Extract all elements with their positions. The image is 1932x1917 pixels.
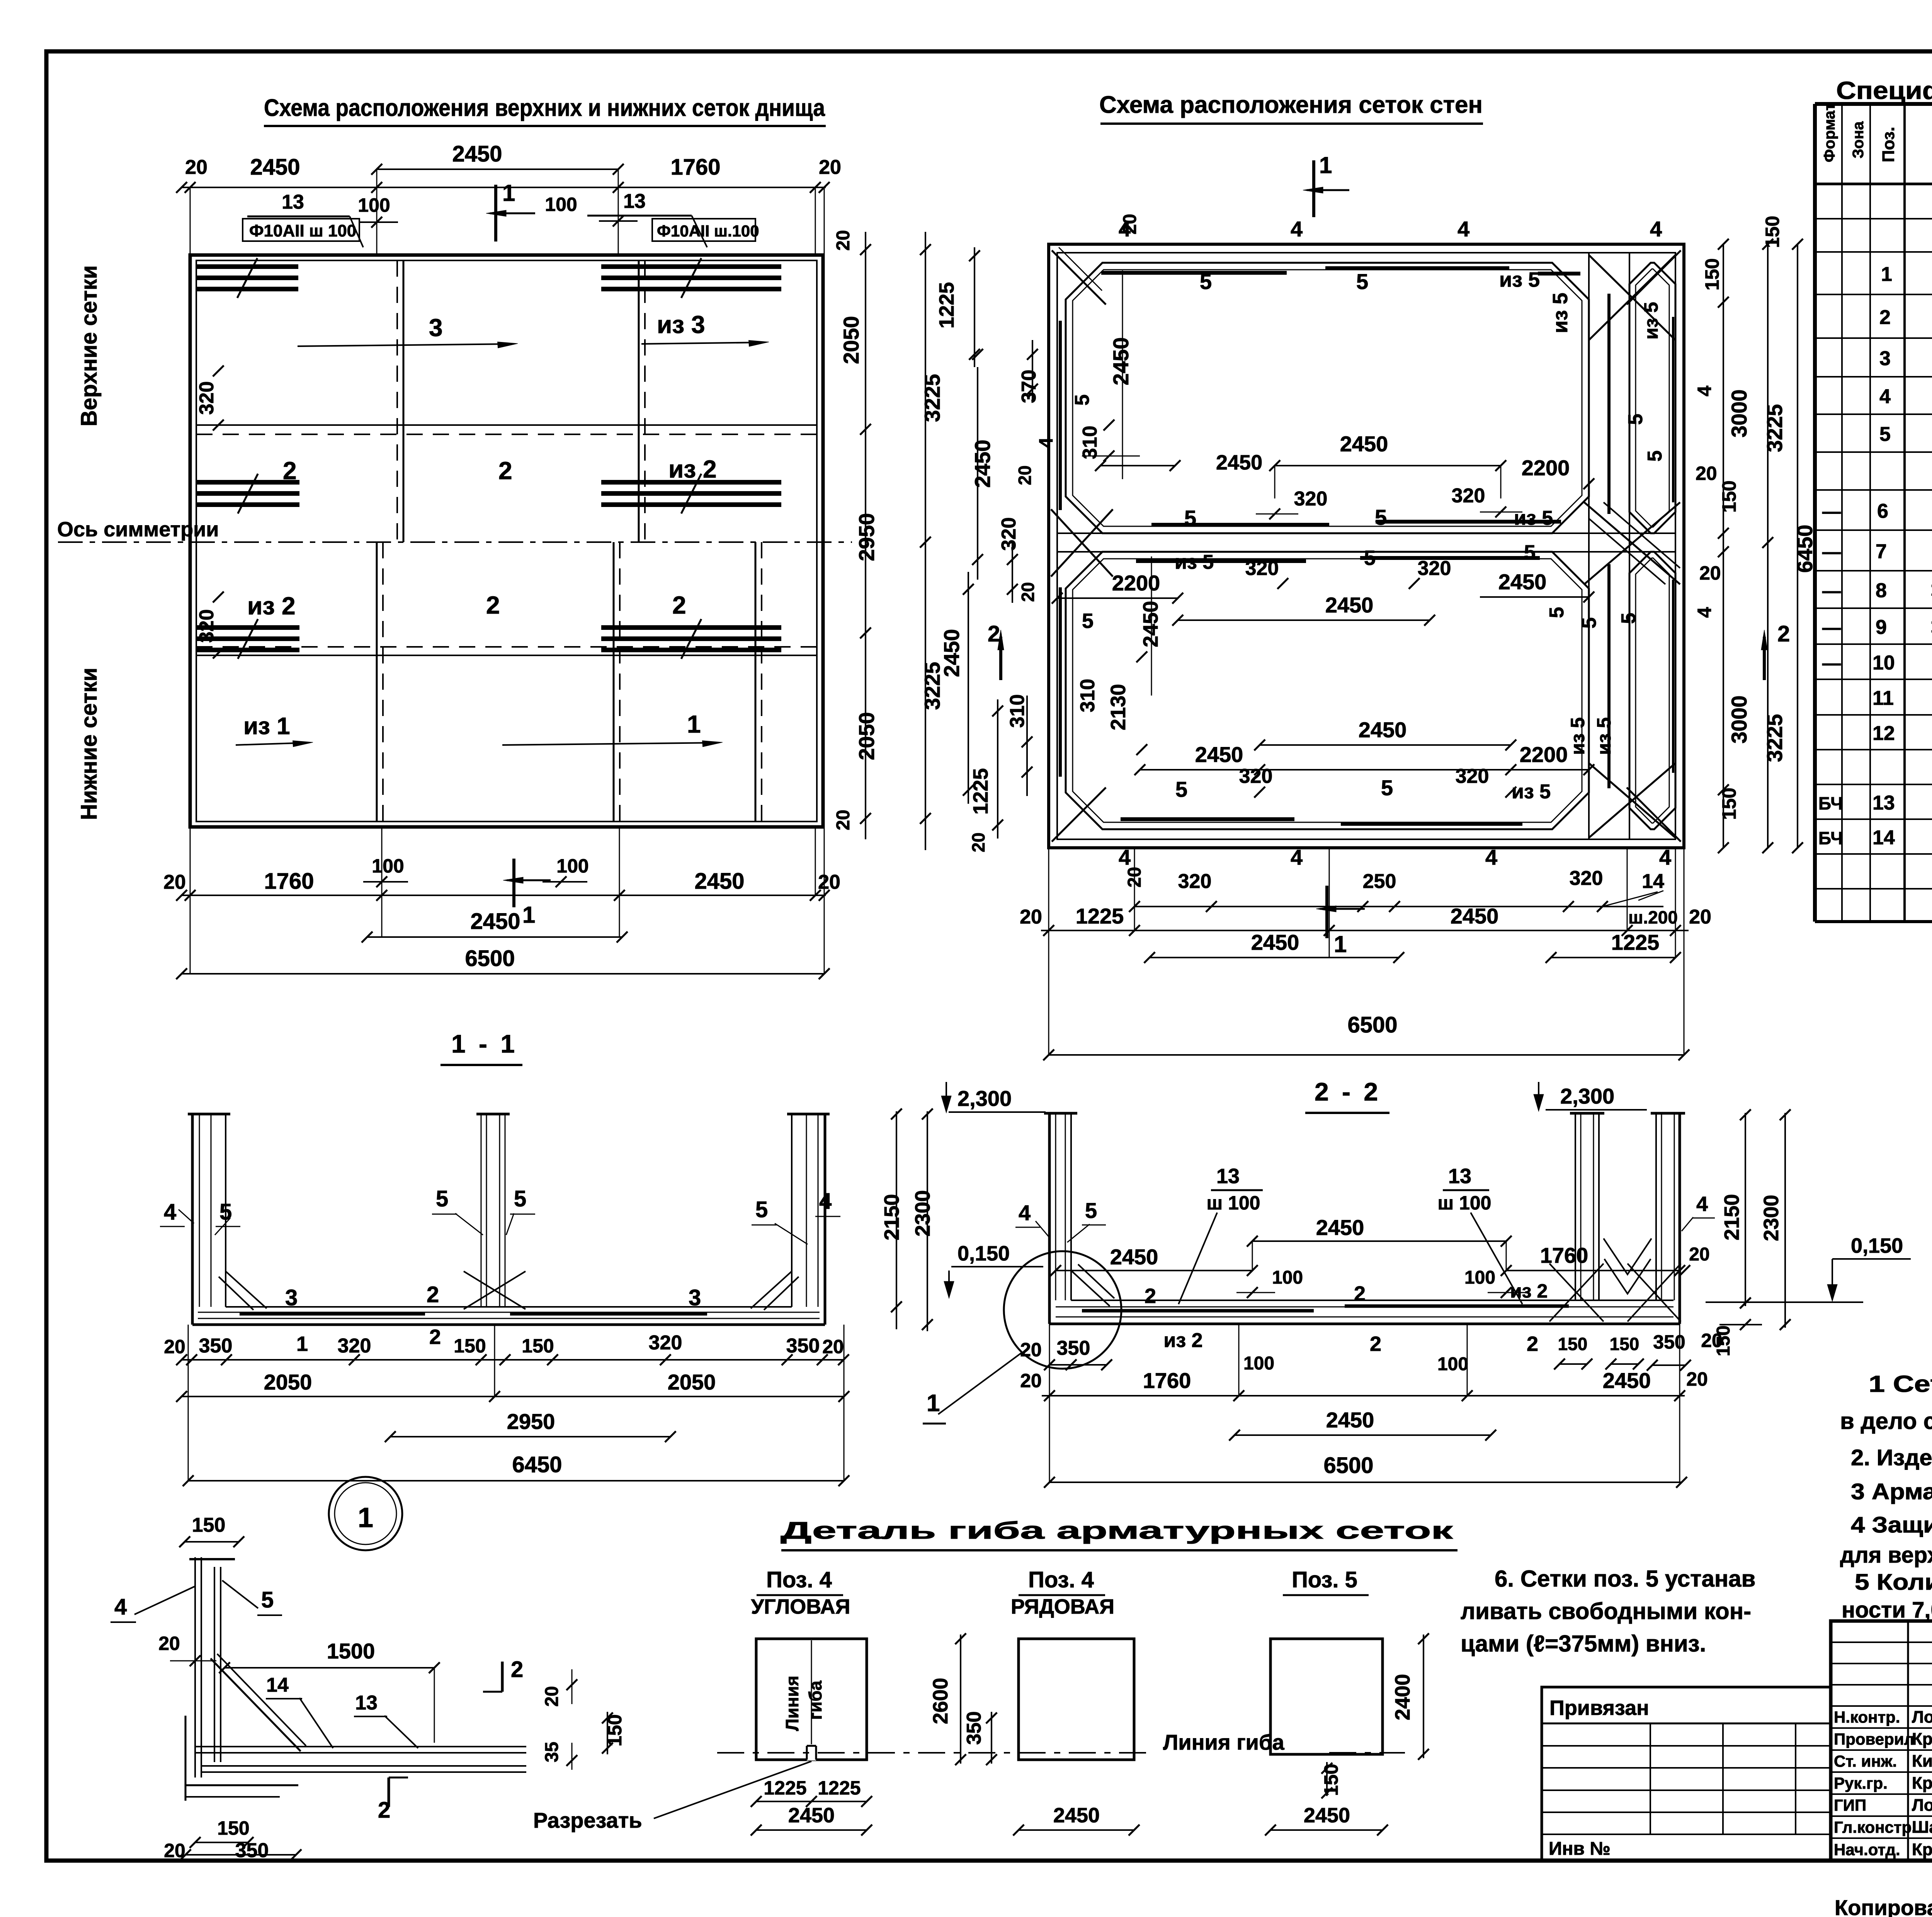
svg-text:3225: 3225: [1762, 714, 1787, 762]
svg-text:1 Сетки поз 4 и 5 согнуть: 1 Сетки поз 4 и 5 согнуть по месту до ус…: [1869, 1371, 1932, 1397]
svg-text:Привязан: Привязан: [1549, 1696, 1649, 1720]
svg-text:2450: 2450: [452, 141, 502, 167]
svg-text:Зона: Зона: [1850, 121, 1867, 158]
svg-text:БЧ: БЧ: [1818, 793, 1843, 813]
section 2-2 floor top: [1071, 1300, 1673, 1301]
svg-text:100: 100: [1437, 1354, 1468, 1374]
svg-text:гиба: гиба: [805, 1681, 825, 1720]
svg-text:1760: 1760: [264, 869, 314, 894]
svg-text:320: 320: [1418, 557, 1451, 580]
section 2-2 right outer wall line: [1679, 1113, 1681, 1324]
svg-text:из 3: из 3: [657, 311, 705, 338]
svg-text:из 5: из 5: [1514, 507, 1553, 529]
svg-text:320: 320: [1239, 765, 1273, 788]
X cross left end of middle wall: [1051, 509, 1113, 577]
svg-text:2300: 2300: [1760, 1195, 1783, 1241]
leader from 13 to mesh left: [350, 216, 363, 247]
svg-text:2200: 2200: [1520, 742, 1568, 767]
svg-text:310: 310: [1079, 426, 1101, 459]
right dim chain 2 of wall plan: [1767, 244, 1769, 848]
section 1-1 right wall outer line: [824, 1114, 827, 1325]
section 2-2 bent mesh V in right gap: [1604, 1238, 1651, 1274]
ext verticals below section 1-1: [188, 1325, 189, 1481]
svg-text:из 5: из 5: [1512, 781, 1551, 803]
svg-text:Краснова: Краснова: [1912, 1730, 1932, 1749]
svg-text:4: 4: [164, 1199, 176, 1225]
label box Ф10АII ш 100 left: [243, 219, 359, 241]
svg-text:1500: 1500: [327, 1639, 375, 1663]
svg-text:Линия гиба: Линия гиба: [1163, 1730, 1285, 1754]
horizontal ext line at floor top right of section 2-2: [1706, 1301, 1863, 1303]
svg-text:100: 100: [358, 194, 390, 216]
svg-text:—: —: [1822, 502, 1841, 522]
section 1-1 floor mesh line a: [198, 1318, 820, 1319]
svg-text:3000: 3000: [1727, 696, 1751, 744]
mesh square поз 5: [1270, 1639, 1383, 1754]
svg-text:2: 2: [1777, 621, 1790, 646]
svg-text:2450: 2450: [1316, 1215, 1364, 1240]
mesh overlap bar left wall lower: [1059, 587, 1062, 777]
section 2-2 left wall mesh a: [1055, 1113, 1056, 1300]
svg-text:5: 5: [1546, 607, 1568, 618]
svg-text:РЯДОВАЯ: РЯДОВАЯ: [1011, 1595, 1114, 1618]
svg-text:из 5: из 5: [1640, 302, 1662, 339]
top-left chamber mesh outline: [1066, 263, 1589, 533]
svg-text:2450: 2450: [1603, 1368, 1651, 1393]
section 1-1 left wall inner line: [225, 1114, 226, 1307]
svg-text:150: 150: [454, 1335, 486, 1357]
svg-text:Схема расположения сеток стен: Схема расположения сеток стен: [1099, 92, 1483, 118]
svg-text:150: 150: [1610, 1334, 1639, 1354]
svg-text:9: 9: [1876, 616, 1887, 639]
svg-text:из 2: из 2: [1163, 1329, 1202, 1352]
svg-text:100: 100: [1464, 1267, 1495, 1288]
corner detail diagonal bar: [211, 1658, 301, 1751]
svg-text:Верхние сетки: Верхние сетки: [77, 265, 102, 427]
mesh square row type: [1019, 1639, 1134, 1760]
svg-text:13: 13: [355, 1692, 378, 1714]
wall plan inner rectangle: [1057, 253, 1675, 839]
corner diagonal top-left of wall plan: [1052, 250, 1106, 304]
svg-text:5: 5: [1624, 414, 1647, 425]
right dim chain 3 of wall plan: [1797, 244, 1798, 848]
svg-text:Поз. 5: Поз. 5: [1292, 1567, 1357, 1592]
middle wall line bottom: [1057, 551, 1675, 553]
svg-text:1760: 1760: [670, 155, 720, 180]
svg-text:5: 5: [1175, 777, 1187, 801]
svg-text:4: 4: [1694, 607, 1715, 618]
leaders to label 14: [1638, 891, 1663, 900]
spec table outer left border: [1813, 104, 1817, 922]
svg-text:2: 2: [1879, 306, 1891, 329]
right dim chain inner of left plan: [865, 232, 866, 839]
dim row 20-1760-2450-20 below plan: [182, 895, 826, 896]
svg-text:100: 100: [1272, 1267, 1303, 1288]
right wall line inner: [1629, 253, 1630, 839]
section 1-1 floor top line: [226, 1306, 792, 1308]
svg-text:150: 150: [522, 1335, 554, 1357]
mesh overlap bar bottom 1: [1121, 817, 1294, 821]
svg-text:из 1: из 1: [243, 713, 290, 740]
svg-text:Схема расположения верхних и н: Схема расположения верхних и нижних сето…: [264, 95, 825, 121]
svg-text:100: 100: [556, 855, 588, 877]
svg-text:2450: 2450: [1326, 1408, 1374, 1432]
section 2-2 floor rebar bar left: [1082, 1309, 1314, 1313]
stamp left column lines: [1907, 1621, 1909, 1861]
svg-text:5: 5: [514, 1186, 526, 1211]
svg-text:1.400-15, в.1 , 210-15: 1.400-15, в.1 , 210-15: [1930, 580, 1932, 600]
bottom-left chamber mesh outline: [1066, 552, 1589, 829]
svg-text:1: 1: [296, 1332, 308, 1356]
svg-text:4: 4: [1291, 845, 1303, 869]
svg-text:5: 5: [1356, 269, 1368, 294]
svg-text:2450: 2450: [250, 155, 300, 180]
svg-text:2400: 2400: [1391, 1674, 1414, 1720]
mesh overlap hatch top-left: [196, 264, 298, 269]
svg-text:5: 5: [1071, 395, 1094, 406]
svg-text:3: 3: [1879, 347, 1891, 370]
svg-text:из 5: из 5: [1499, 268, 1540, 291]
svg-text:1: 1: [1881, 263, 1892, 286]
section 1-1 wall top cap left: [188, 1113, 230, 1116]
svg-text:1: 1: [1319, 152, 1332, 178]
right wall line outer: [1588, 253, 1590, 839]
underline of 2-2 title: [1305, 1112, 1389, 1114]
mesh overlap hatch mid-right: [601, 480, 781, 485]
section 2-2 X crosses bottom right: [1549, 1264, 1604, 1322]
svg-text:6. Сетки поз. 5 устанав: 6. Сетки поз. 5 устанав: [1495, 1566, 1755, 1592]
svg-text:150: 150: [217, 1817, 249, 1839]
svg-text:2450: 2450: [1304, 1804, 1350, 1827]
svg-text:35: 35: [542, 1742, 562, 1762]
mesh overlap bar left wall upper: [1059, 321, 1062, 510]
svg-text:4: 4: [1019, 1201, 1031, 1225]
svg-text:250: 250: [1363, 870, 1396, 893]
mesh overlap bar right inner upper: [1672, 317, 1674, 502]
dim row 20-2450-1760-20 above plan: [182, 187, 826, 188]
mesh overlap hatch top-right: [601, 264, 781, 269]
svg-text:2450: 2450: [1340, 432, 1388, 456]
svg-text:4 Защитный слой бетона для: 4 Защитный слой бетона для нижних сеток …: [1851, 1512, 1932, 1538]
svg-text:350: 350: [1057, 1337, 1090, 1359]
right dim 2150 of section 2-2: [1745, 1113, 1746, 1306]
corner diagonal bottom-left of wall plan: [1052, 788, 1106, 842]
section 2-2 left wall inner line: [1070, 1113, 1072, 1300]
corner detail bottom ledge lines: [185, 1784, 298, 1786]
mesh overlap bar right wall lower: [1607, 564, 1611, 788]
svg-text:2150: 2150: [880, 1194, 903, 1240]
vertical fold axis in corner mesh: [811, 1640, 812, 1744]
small ticks below floor right: [1560, 1363, 1587, 1365]
svg-text:2: 2: [672, 591, 686, 619]
Привязан grid columns: [1650, 1723, 1651, 1834]
plan outer rectangle (bottom slab): [190, 255, 823, 827]
svg-text:Спецификация монолитного: Спецификация монолитного: [1836, 77, 1932, 104]
svg-text:4: 4: [1458, 217, 1469, 241]
svg-text:13: 13: [623, 190, 646, 213]
svg-text:Поз.: Поз.: [1879, 127, 1898, 162]
svg-text:Лоуцкер: Лоуцкер: [1912, 1796, 1932, 1815]
svg-text:5: 5: [1644, 451, 1666, 462]
mesh overlap bar top 3: [1538, 272, 1580, 276]
svg-text:3: 3: [429, 314, 443, 342]
svg-text:2450: 2450: [1109, 337, 1133, 386]
svg-text:13: 13: [282, 191, 304, 213]
svg-text:2200: 2200: [1112, 571, 1160, 595]
svg-text:6500: 6500: [465, 946, 515, 971]
svg-text:6500: 6500: [1323, 1453, 1373, 1478]
svg-text:ш.200: ш.200: [1628, 907, 1678, 927]
svg-text:20: 20: [818, 871, 840, 893]
section 2-2 wall top cap left: [1044, 1112, 1077, 1115]
svg-text:2450: 2450: [1251, 930, 1299, 954]
stamp left thin rows: [1831, 1641, 1932, 1643]
svg-text:2,300: 2,300: [1560, 1084, 1614, 1108]
svg-text:370: 370: [1018, 370, 1040, 403]
section 1-1 corner diagonal bottom-left: [226, 1271, 267, 1308]
mesh horizontal joint upper dashed: [196, 434, 817, 435]
svg-text:5: 5: [1879, 423, 1891, 446]
right dim 2300 of section 2-2: [1784, 1113, 1786, 1328]
section 1-1 right wall mesh line a: [818, 1114, 819, 1307]
section 2-2 corner diagonal bottom-left: [1071, 1271, 1110, 1306]
svg-text:УГЛОВАЯ: УГЛОВАЯ: [751, 1595, 850, 1618]
section 1-1 floor rebar bar left: [240, 1312, 425, 1316]
svg-text:320: 320: [196, 609, 218, 643]
svg-text:2130: 2130: [1107, 684, 1130, 730]
svg-text:12: 12: [1872, 722, 1895, 745]
bottom-right narrow chamber mesh outline inner: [1636, 558, 1669, 823]
dim row 1760-100-100-2450-20 below section 2-2: [1042, 1395, 1685, 1397]
svg-text:4: 4: [114, 1594, 127, 1619]
svg-text:1760: 1760: [1540, 1243, 1588, 1267]
svg-text:2: 2: [1354, 1282, 1366, 1305]
top-right narrow chamber mesh outline: [1629, 263, 1675, 533]
svg-text:1 - 1: 1 - 1: [451, 1029, 518, 1058]
svg-text:320: 320: [1456, 765, 1489, 788]
svg-text:20: 20: [1689, 1244, 1709, 1265]
leader from 13 to mesh right: [692, 216, 707, 247]
svg-text:0,150: 0,150: [957, 1242, 1010, 1265]
mesh horizontal joint upper solid: [196, 424, 817, 426]
svg-text:ливать свободными кон-: ливать свободными кон-: [1461, 1598, 1751, 1624]
svg-text:20: 20: [1018, 582, 1038, 602]
svg-text:1225: 1225: [1611, 930, 1660, 954]
svg-text:Деталь гиба арматурных с: Деталь гиба арматурных сеток: [781, 1517, 1454, 1544]
svg-text:4: 4: [819, 1189, 832, 1214]
svg-text:1.400-15, в1, 120-43: 1.400-15, в1, 120-43: [1930, 616, 1932, 637]
svg-text:13: 13: [1872, 792, 1895, 814]
underline of left title: [264, 125, 826, 127]
wall plan outer rectangle: [1049, 244, 1684, 848]
detail circle mark 1: [329, 1477, 402, 1550]
svg-text:в дело согласно детали.: в дело согласно детали.: [1840, 1408, 1932, 1434]
section 2-2 right wall A lines: [1575, 1113, 1576, 1300]
svg-text:20: 20: [1699, 562, 1721, 584]
svg-text:1: 1: [358, 1502, 373, 1533]
svg-text:0,150: 0,150: [1851, 1234, 1903, 1257]
right dim chain 1 of wall plan: [1723, 244, 1724, 848]
svg-text:2450: 2450: [1216, 451, 1262, 474]
svg-text:7: 7: [1876, 541, 1887, 563]
svg-text:5: 5: [1375, 505, 1387, 529]
svg-text:13: 13: [1216, 1165, 1240, 1188]
svg-text:2450: 2450: [1498, 570, 1547, 594]
svg-text:2450: 2450: [470, 909, 520, 934]
section 1-1 right wall inner line: [791, 1114, 793, 1307]
svg-text:цами (ℓ=375мм) вниз.: цами (ℓ=375мм) вниз.: [1461, 1631, 1706, 1657]
svg-text:2450: 2450: [939, 629, 964, 677]
svg-text:20: 20: [1020, 1339, 1042, 1361]
corner diagonal top-right of wall plan: [1627, 250, 1681, 304]
svg-text:10: 10: [1872, 652, 1895, 674]
section 1-1 left wall outer line: [191, 1114, 194, 1325]
small table Привязан: [1542, 1687, 1831, 1861]
svg-text:14: 14: [1642, 870, 1664, 893]
svg-text:150: 150: [1320, 1764, 1342, 1796]
svg-text:Разрезать: Разрезать: [533, 1808, 642, 1832]
svg-text:20: 20: [185, 156, 207, 179]
svg-text:20: 20: [1696, 463, 1717, 484]
svg-text:20: 20: [1020, 1370, 1042, 1391]
svg-text:5: 5: [219, 1199, 232, 1225]
right dim 2150 of section 1-1: [896, 1111, 897, 1329]
section 1-1 corner diagonal bottom-right: [751, 1271, 792, 1308]
svg-text:20: 20: [822, 1336, 844, 1357]
axis of symmetry dash-dot line: [58, 541, 852, 543]
section 2-2 right wall B lines: [1655, 1113, 1657, 1300]
svg-text:4: 4: [1659, 845, 1671, 869]
svg-text:320: 320: [1570, 867, 1603, 890]
svg-text:5: 5: [1617, 613, 1640, 624]
svg-text:Красавин: Красавин: [1912, 1840, 1932, 1859]
svg-text:100: 100: [545, 194, 577, 215]
svg-text:150: 150: [1718, 480, 1740, 512]
svg-text:2: 2: [283, 457, 297, 485]
top-left chamber mesh outline inner: [1073, 270, 1582, 526]
svg-text:ш 100: ш 100: [1207, 1192, 1260, 1214]
underline of bend detail title: [781, 1549, 1458, 1551]
corner detail wall bar top hook: [189, 1558, 235, 1560]
leader Разрезать: [654, 1761, 811, 1818]
svg-text:4: 4: [1035, 437, 1057, 448]
svg-text:13: 13: [1448, 1165, 1471, 1188]
svg-text:2450: 2450: [1139, 601, 1162, 647]
svg-text:Линия: Линия: [782, 1675, 802, 1731]
svg-text:20: 20: [1689, 906, 1711, 928]
spec table outer top border: [1815, 102, 1932, 106]
corner detail wall bars: [194, 1557, 196, 1778]
svg-text:310: 310: [1006, 694, 1029, 728]
svg-text:Поз. 4: Поз. 4: [766, 1567, 832, 1592]
svg-text:350: 350: [199, 1335, 233, 1357]
svg-text:5: 5: [1364, 546, 1376, 570]
svg-text:150: 150: [1713, 1325, 1734, 1356]
svg-text:ш 100: ш 100: [1438, 1192, 1492, 1214]
svg-text:2: 2: [486, 591, 500, 619]
svg-text:2450: 2450: [1451, 904, 1499, 928]
svg-text:320: 320: [338, 1335, 371, 1357]
svg-text:—: —: [1822, 618, 1841, 638]
svg-text:2: 2: [1145, 1284, 1156, 1308]
svg-text:4: 4: [1696, 1192, 1708, 1216]
svg-text:14: 14: [1872, 827, 1895, 849]
svg-text:из 5: из 5: [1593, 717, 1615, 755]
svg-text:из 2: из 2: [247, 592, 296, 620]
micro dim line below wall plan: [1134, 906, 1663, 907]
svg-text:из 5: из 5: [1175, 551, 1214, 573]
mesh overlap bar above middle wall 1: [1151, 523, 1329, 527]
svg-text:1225: 1225: [818, 1777, 861, 1799]
svg-text:320: 320: [1245, 557, 1279, 580]
mesh overlap hatch lower-left: [196, 625, 299, 630]
svg-text:3 Арматурные сетки поз. 1-5: 3 Арматурные сетки поз. 1-5 выполнены по…: [1851, 1479, 1932, 1504]
mesh sheet vertical joint 2 upper (solid+dashed): [638, 260, 640, 542]
svg-text:2450: 2450: [970, 440, 995, 488]
svg-text:320: 320: [1294, 488, 1328, 510]
svg-text:150: 150: [1718, 788, 1740, 820]
svg-text:1225: 1225: [764, 1777, 806, 1799]
section 1-1 left wall mesh line b: [211, 1114, 212, 1307]
svg-text:из 5: из 5: [1567, 717, 1588, 755]
svg-text:Копировал: Копировал: [1835, 1895, 1932, 1917]
svg-text:20: 20: [819, 156, 841, 179]
spec table outer bottom border: [1815, 920, 1932, 923]
underline of 1-1 title: [440, 1064, 522, 1066]
bottom-right narrow chamber mesh outline: [1629, 552, 1675, 829]
svg-text:350: 350: [1653, 1331, 1685, 1353]
mesh overlap bar top 1: [1101, 271, 1287, 275]
mesh overlap bar below middle wall 1: [1136, 559, 1306, 563]
ext verticals below section 2-2: [1049, 1324, 1050, 1482]
svg-text:5: 5: [261, 1587, 274, 1613]
svg-text:1: 1: [687, 710, 701, 738]
section 1-1 middle X cross: [464, 1271, 526, 1309]
svg-text:2450: 2450: [1359, 718, 1407, 742]
svg-text:БЧ: БЧ: [1818, 828, 1843, 848]
mesh sheet vertical joint 1 upper (dashed+solid): [396, 260, 398, 542]
svg-text:150: 150: [1701, 258, 1723, 290]
svg-text:Ф10АII ш.100: Ф10АII ш.100: [657, 222, 759, 240]
section 2-2 floor mesh b: [1056, 1306, 1673, 1308]
svg-text:3: 3: [285, 1285, 298, 1310]
section 2-2 left wall outer line: [1048, 1113, 1051, 1324]
svg-text:1: 1: [522, 902, 535, 928]
section 1-1 wall top cap middle: [476, 1113, 510, 1116]
svg-text:Гл.констр.: Гл.констр.: [1834, 1818, 1916, 1836]
svg-text:2450: 2450: [788, 1804, 835, 1827]
svg-text:2950: 2950: [854, 513, 879, 561]
section 1-1 wall top cap right: [787, 1113, 830, 1116]
svg-text:Формат: Формат: [1821, 103, 1838, 162]
mesh sheet vertical joint 1 lower (solid+dashed): [376, 542, 378, 822]
svg-text:2150: 2150: [1720, 1194, 1743, 1240]
svg-text:Поз. 4: Поз. 4: [1028, 1567, 1094, 1592]
section 1-1 floor rebar bar right: [510, 1312, 707, 1316]
svg-text:3: 3: [689, 1285, 701, 1310]
corner diagonal bottom-right of wall plan: [1627, 788, 1681, 842]
dim 2050 row below section 1-1: [182, 1396, 844, 1397]
svg-text:1: 1: [1334, 931, 1347, 957]
svg-text:—: —: [1822, 653, 1841, 674]
svg-text:8: 8: [1876, 580, 1887, 602]
svg-text:2050: 2050: [854, 712, 879, 760]
svg-text:для верхних сеток - 20мм.: для верхних сеток - 20мм.: [1840, 1543, 1932, 1568]
section 2-2 wall top cap right: [1651, 1112, 1685, 1115]
mesh sheet vertical joint 2 lower (solid+dashed): [613, 542, 615, 822]
svg-text:2450: 2450: [1053, 1804, 1100, 1827]
svg-text:100: 100: [1243, 1353, 1274, 1374]
